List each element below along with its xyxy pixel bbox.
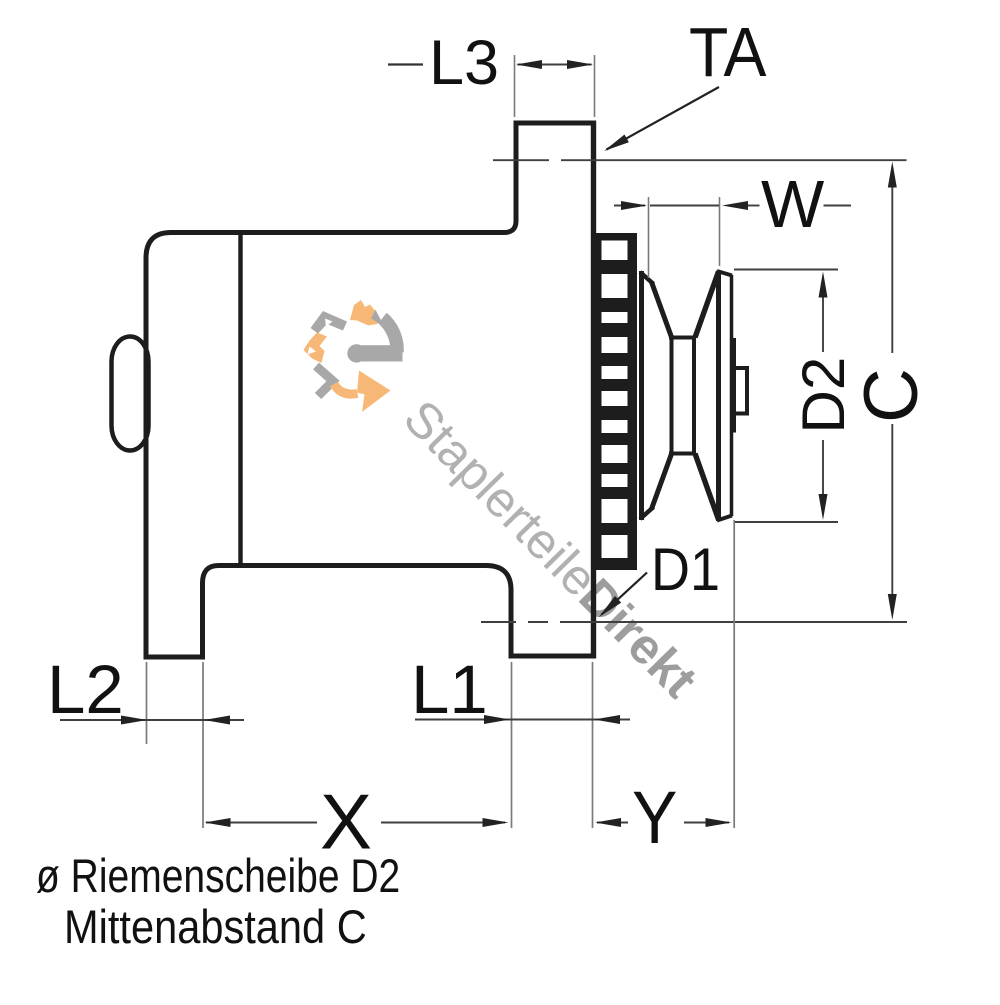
mounting face vertical line [591,121,596,659]
pulley [640,271,747,522]
gray big C arc [374,313,397,353]
bottom mounting centerline [481,621,907,623]
watermark logo [304,300,403,412]
L2 dimension [147,662,204,828]
D2 dimension [822,292,824,352]
top mounting centerline [493,159,907,161]
hub face + nut [733,338,736,433]
svg-text:Y: Y [632,777,677,859]
svg-text:W: W [761,167,825,242]
gray top-left chevron [311,311,348,334]
svg-text:D2: D2 [790,357,857,434]
orange bottom big arrow [334,384,358,394]
C dimension [891,182,893,353]
orange left arrow [304,333,328,364]
W dimension [649,197,720,278]
svg-text:C: C [849,368,934,423]
mounting ear (left bump) [112,337,149,451]
inner housing line [238,231,242,566]
svg-text:L2: L2 [47,651,124,728]
fan ladder [592,233,637,570]
X dimension [206,822,317,824]
svg-text:TA: TA [689,14,767,92]
alternator body outline [146,123,595,657]
svg-text:L1: L1 [411,651,488,728]
right V slants [695,272,719,338]
svg-text:ø Riemenscheibe D2: ø Riemenscheibe D2 [36,851,400,903]
L3 dimension [515,55,595,117]
belt seat [670,337,674,454]
orange top arrow [350,300,378,326]
left flange [639,271,644,520]
svg-text:D1: D1 [651,536,720,603]
gray bottom-left chevron [316,366,333,396]
svg-text:Mittenabstand C: Mittenabstand C [64,902,367,954]
Y dimension [733,520,735,828]
L1 dimension [512,662,593,828]
right flange [716,271,721,522]
D2 reference lines [734,269,838,271]
svg-text:L3: L3 [429,28,499,98]
